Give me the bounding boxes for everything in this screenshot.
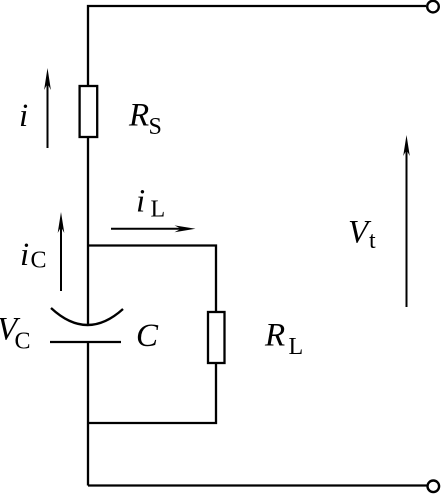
wire node A to RL branch bbox=[88, 246, 216, 313]
arrowhead iL bbox=[175, 225, 196, 232]
terminal bottom-right bbox=[428, 481, 440, 493]
svg-text:L: L bbox=[151, 197, 166, 223]
capacitor C1 bottom plate bbox=[50, 341, 121, 343]
svg-text:C: C bbox=[31, 248, 47, 274]
terminal top-right bbox=[427, 1, 439, 13]
arrow current iC bbox=[60, 220, 62, 291]
svg-text:t: t bbox=[369, 228, 376, 254]
arrow voltage Vt bbox=[406, 143, 408, 307]
resistor R2 RL body bbox=[208, 312, 225, 363]
svg-text:R: R bbox=[128, 98, 149, 134]
svg-text:i: i bbox=[136, 184, 145, 220]
arrow current iL bbox=[111, 228, 188, 230]
resistor R1 RS body bbox=[80, 86, 98, 137]
capacitor C1 top curved plate bbox=[51, 308, 123, 325]
arrow current i bbox=[47, 76, 49, 148]
wire RL bottom return bbox=[88, 363, 216, 423]
svg-text:S: S bbox=[149, 114, 162, 140]
arrowhead Vt bbox=[403, 135, 410, 156]
svg-text:i: i bbox=[19, 98, 28, 134]
svg-text:i: i bbox=[20, 237, 29, 273]
svg-text:L: L bbox=[289, 334, 304, 360]
svg-text:C: C bbox=[15, 329, 31, 355]
svg-text:R: R bbox=[264, 318, 285, 354]
wire capacitor to bottom rail bbox=[87, 343, 89, 486]
arrowhead i bbox=[44, 68, 51, 90]
svg-text:C: C bbox=[136, 318, 159, 354]
wire bottom rail bbox=[88, 484, 427, 486]
wire RS to capacitor bbox=[87, 137, 89, 325]
wire top rail bbox=[88, 6, 426, 86]
arrowhead iC bbox=[58, 212, 65, 233]
